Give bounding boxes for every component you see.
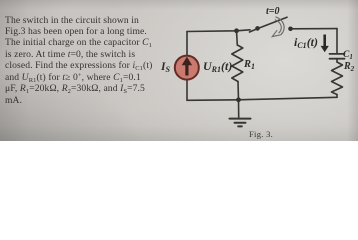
ground bars bbox=[230, 119, 251, 127]
label UR1(t) bbox=[203, 59, 232, 74]
switch closing arrow arc bbox=[276, 17, 285, 35]
switch right terminal bbox=[288, 27, 293, 32]
wire capacitor top lead bbox=[336, 29, 338, 54]
label t=0 bbox=[266, 6, 279, 17]
wire left vertical lower bbox=[186, 80, 188, 101]
wire R1 bottom lead bbox=[237, 82, 240, 100]
label R1 bbox=[244, 59, 255, 70]
label iC1(t) bbox=[294, 35, 318, 50]
node: R1 bottom junction bbox=[236, 97, 241, 102]
wire R2 bottom lead bbox=[336, 95, 338, 98]
label IS bbox=[161, 61, 170, 73]
wire R1 top lead bbox=[236, 31, 239, 45]
label R2 bbox=[344, 61, 354, 72]
resistor R1 bbox=[232, 45, 243, 82]
ground stem bbox=[238, 100, 240, 118]
wire capacitor bottom lead bbox=[336, 59, 338, 62]
current source IS circle bbox=[175, 56, 199, 80]
problem text paragraph bbox=[5, 15, 165, 107]
wire bottom horizontal bbox=[187, 97, 337, 100]
current source arrow bbox=[182, 57, 192, 76]
switch blade bbox=[250, 17, 288, 32]
wire switch to capacitor corner bbox=[291, 28, 337, 30]
caption Fig. 3. bbox=[249, 129, 273, 139]
node: R1 top junction bbox=[234, 28, 239, 33]
switch left terminal bbox=[255, 26, 260, 31]
current arrow iC1 bbox=[321, 35, 329, 53]
label C1 bbox=[343, 50, 353, 60]
resistor R2 bbox=[332, 62, 343, 95]
capacitor C1 plates bbox=[330, 54, 345, 59]
wire left vertical upper bbox=[186, 32, 188, 57]
wire top-left horizontal bbox=[187, 30, 250, 32]
